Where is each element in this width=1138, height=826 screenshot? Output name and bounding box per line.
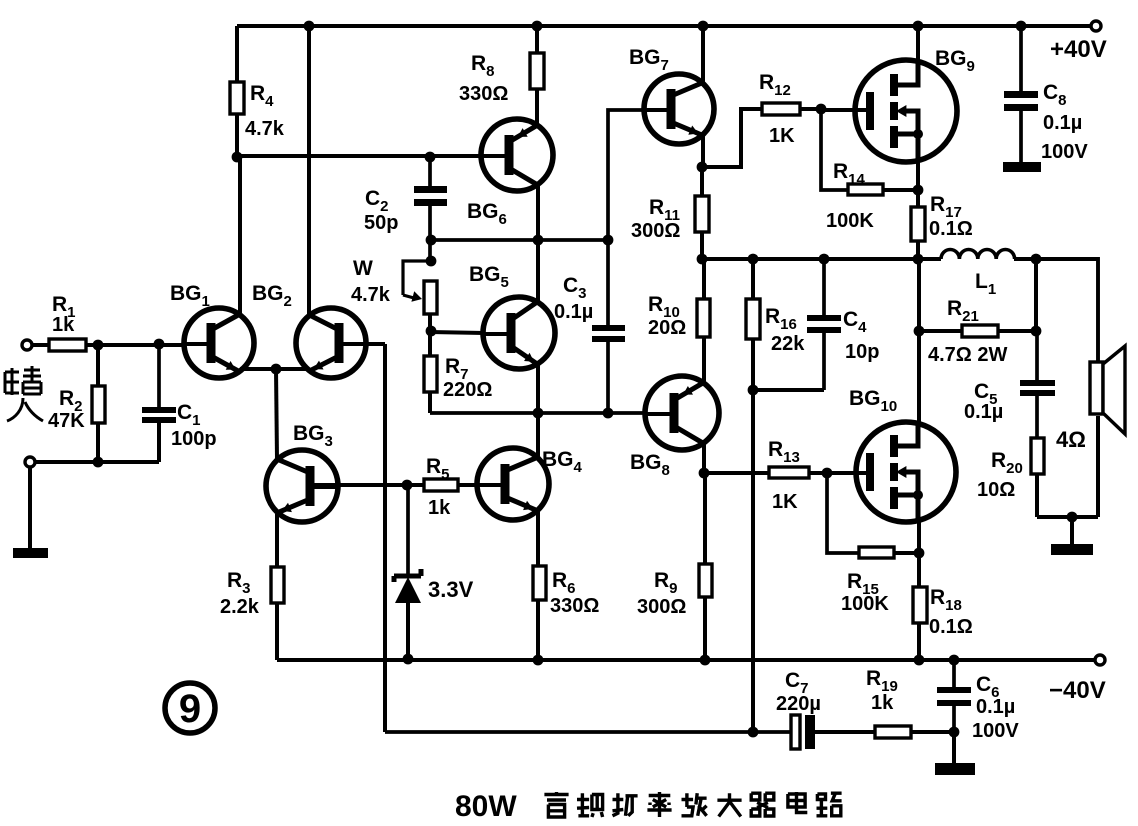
node R17 bottom <box>913 254 924 265</box>
node R21 right / C5 top <box>1031 326 1042 337</box>
wire feedback/ground return line <box>385 730 791 734</box>
svg-text:1k: 1k <box>52 314 75 336</box>
resistor R12 <box>762 103 800 115</box>
figure number 9 (circled) <box>165 683 215 733</box>
wire BG4 collector to node C <box>536 413 540 457</box>
wire BG2 base to feedback line <box>344 342 385 346</box>
wire node down to ground return line <box>751 390 755 732</box>
resistor R3 <box>271 567 284 603</box>
wire R19 to C6 node <box>911 730 954 734</box>
ground C8 <box>1003 162 1041 172</box>
wire BG10 source down <box>917 521 921 553</box>
transistor BG3 (ref) <box>266 450 339 522</box>
speaker 4 ohm <box>1090 362 1103 414</box>
svg-text:100K: 100K <box>826 210 874 232</box>
node C: BG5 collector / BG4 collector <box>533 408 544 419</box>
resistor R6 <box>533 566 546 600</box>
svg-text:300Ω: 300Ω <box>637 596 686 618</box>
svg-text:0.1µ: 0.1µ <box>554 301 593 323</box>
svg-text:1K: 1K <box>772 491 798 513</box>
node BG2 collector / +40V rail junction <box>304 21 315 32</box>
resistor R11 <box>695 196 709 232</box>
resistor R4 <box>230 82 244 114</box>
wire R12 to BG9 gate node <box>800 107 821 111</box>
resistor R5 <box>424 479 458 491</box>
node BG7 emitter / R11 / R12 branch <box>697 162 708 173</box>
wire R13 to BG10 gate node <box>809 471 827 475</box>
wire +40V rail to R8 <box>535 26 539 53</box>
wire BG8 emitter down <box>702 442 706 473</box>
svg-text:0.1µ: 0.1µ <box>976 696 1015 718</box>
wire R7 to y413 line <box>428 392 432 413</box>
zener diode 3.3V <box>406 485 410 576</box>
wire to ground <box>1070 517 1074 544</box>
capacitor C7 (electrolytic 220u) <box>791 715 800 749</box>
wire input return to ground <box>28 467 32 548</box>
svg-text:10Ω: 10Ω <box>977 479 1015 501</box>
wire zobel to speaker return <box>1037 515 1098 519</box>
wire node to R11 <box>700 167 704 196</box>
node R8 / +40V rail junction <box>532 21 543 32</box>
wire BG9 source down <box>916 162 920 190</box>
wire +40V top supply rail <box>237 24 1091 28</box>
wire BG2 collector to +40V rail <box>307 26 311 315</box>
wire R15 to BG10 source node <box>894 551 919 555</box>
ground speaker return <box>1051 544 1093 555</box>
wire speaker to return <box>1096 416 1100 517</box>
wire output rail to R21 node <box>917 259 921 331</box>
node BG9 gate / R14 <box>816 104 827 115</box>
svg-text:+40V: +40V <box>1050 36 1107 63</box>
wire C3 node to BG7 base <box>608 110 644 240</box>
wire output rail to R10 <box>702 259 706 299</box>
terminal signal input (return) <box>25 457 35 467</box>
wire BG7 collector to +40V rail <box>701 26 705 84</box>
wire R3 to -40V rail <box>275 603 279 660</box>
transistor BG4 (ref) <box>476 448 549 520</box>
transistor BG6 (ref) <box>480 119 553 191</box>
wire R8 to BG6 emitter <box>535 89 539 127</box>
node R19 / C6 / ground <box>949 727 960 738</box>
terminal signal input (hot) <box>22 340 32 350</box>
resistor R21 <box>962 325 998 337</box>
wire C1 to input return <box>157 423 161 462</box>
wire +40V rail to BG9 drain <box>916 26 920 60</box>
svg-text:80W: 80W <box>455 790 517 823</box>
node D: W / R7 / BG5 base <box>426 326 437 337</box>
wire node to R13 <box>704 471 769 475</box>
wire node to R17 <box>916 190 920 207</box>
resistor R1 <box>49 339 86 351</box>
node W wiper tie <box>426 256 437 267</box>
node C2 top junction <box>425 152 436 163</box>
wire R10 to BG8 collector <box>702 337 706 384</box>
node C8 / +40V rail junction <box>1016 21 1027 32</box>
node BG10 gate / R15 <box>822 468 833 479</box>
transistor BG1 (ref) <box>183 308 254 378</box>
node vertical line / return line <box>748 727 759 738</box>
wire R20 down <box>1035 474 1039 517</box>
wire C6 node to ground <box>952 732 956 763</box>
svg-text:0.1µ: 0.1µ <box>964 401 1003 423</box>
transistor BG5 (ref) <box>482 297 555 369</box>
capacitor C2 <box>428 157 432 186</box>
capacitor C1 <box>157 344 161 407</box>
wire +40V rail to R4 <box>235 26 239 82</box>
node R6 / -40V rail <box>533 655 544 666</box>
node B: BG3 base / R5 / zener <box>402 480 413 491</box>
wire BG3 base to node B <box>314 483 407 487</box>
wire R21 to C5 node <box>998 329 1036 333</box>
svg-text:330Ω: 330Ω <box>459 83 508 105</box>
node BG7 collector / +40V rail junction <box>698 21 709 32</box>
svg-text:1k: 1k <box>871 692 894 714</box>
node C4 top <box>819 254 830 265</box>
inductor L1 <box>941 249 1015 259</box>
resistor R17 <box>911 207 925 241</box>
wire C7 to R19 <box>815 730 875 734</box>
wire input to R1 <box>32 343 49 347</box>
ground C6 <box>935 763 975 775</box>
svg-text:300Ω: 300Ω <box>631 220 680 242</box>
wire R11 to output rail <box>700 232 704 259</box>
wire C4 bottom to R16 bottom <box>753 388 824 392</box>
node C2 bottom junction <box>426 235 437 246</box>
wire BG3 emitter to R3 <box>275 514 279 567</box>
capacitor C3 <box>606 240 610 325</box>
svg-text:20Ω: 20Ω <box>648 317 686 339</box>
svg-text:220µ: 220µ <box>776 693 821 715</box>
node R16 / C4 bottom <box>748 385 759 396</box>
svg-text:4.7k: 4.7k <box>351 284 391 306</box>
transistor BG2 (ref) <box>296 308 367 378</box>
resistor R9 <box>699 564 712 597</box>
svg-text:1k: 1k <box>428 497 451 519</box>
wire BG4 emitter to R6 <box>536 511 540 566</box>
ground input <box>13 548 48 558</box>
svg-text:W: W <box>353 257 373 280</box>
wire gate node to BG10 gate <box>827 471 866 475</box>
wire BG5 emitter up <box>536 240 540 301</box>
wire BG7 emitter down <box>701 133 705 167</box>
svg-text:100V: 100V <box>972 720 1019 742</box>
node R9 / -40V rail <box>700 655 711 666</box>
wire R6 to -40V rail <box>536 600 540 660</box>
wire R9 to -40V rail <box>703 597 707 660</box>
wire R18 to -40V rail <box>917 623 921 660</box>
resistor R16 <box>746 299 760 339</box>
wire R17 to output rail <box>916 241 920 259</box>
svg-text:0.1Ω: 0.1Ω <box>929 616 973 638</box>
node BG9 drain / +40V rail junction <box>913 21 924 32</box>
transistor BG8 (ref) <box>644 376 719 450</box>
svg-text:100p: 100p <box>171 428 217 450</box>
resistor R13 <box>769 467 809 478</box>
wire output rail <box>702 257 941 261</box>
wire W to node D <box>428 314 432 331</box>
svg-text:100K: 100K <box>841 593 889 615</box>
node BG10 source / R15 / R18 <box>914 548 925 559</box>
wire node to R21 <box>919 329 962 333</box>
transistor BG7 (ref) <box>643 74 714 144</box>
node C1 top junction <box>154 339 165 350</box>
node zener / -40V rail <box>403 654 414 665</box>
terminal +40V supply <box>1091 21 1101 31</box>
wire R16 down <box>751 339 755 390</box>
label input (Chinese 输入) <box>5 366 43 421</box>
svg-text:47K: 47K <box>48 410 85 432</box>
node R16 top <box>748 254 759 265</box>
wire node D to R7 <box>428 331 432 356</box>
terminal -40V supply <box>1095 655 1105 665</box>
wire feedback line vertical <box>383 344 387 732</box>
svg-text:3.3V: 3.3V <box>428 577 474 602</box>
wire R4 to node A <box>235 114 239 157</box>
node BG8 emitter / R13 / R9 <box>699 468 710 479</box>
node R18 / -40V rail <box>914 655 925 666</box>
node BG6 collector / BG5 emitter <box>533 235 544 246</box>
resistor R8 <box>530 53 544 89</box>
caption Chinese characters <box>544 792 568 817</box>
node speaker return ground tap <box>1067 512 1078 523</box>
node R21 right / speaker branch <box>1031 254 1042 265</box>
node C3 bottom junction <box>603 408 614 419</box>
wire -40V bottom rail <box>277 658 1095 662</box>
svg-text:0.1Ω: 0.1Ω <box>929 218 973 240</box>
wire node to R2 <box>96 345 100 386</box>
node C3 top / BG7 base <box>603 235 614 246</box>
resistor R14 <box>848 184 883 195</box>
node R21 left / BG10 drain <box>914 326 925 337</box>
wire R1 to BG1 base <box>86 343 184 347</box>
wire R2 to input return <box>96 423 100 462</box>
svg-text:22k: 22k <box>771 333 805 355</box>
svg-text:330Ω: 330Ω <box>550 595 599 617</box>
wire node B to R5 <box>407 483 424 487</box>
node BG9 source / R14 / R17 <box>913 185 924 196</box>
resistor R20 <box>1031 438 1044 474</box>
svg-text:10p: 10p <box>845 341 879 363</box>
resistor R19 <box>875 726 911 738</box>
wire R14 to BG9 source node <box>883 188 918 192</box>
capacitor C8 <box>1019 26 1023 91</box>
svg-text:1K: 1K <box>769 125 795 147</box>
wire node to R9 <box>703 473 707 564</box>
svg-text:4Ω: 4Ω <box>1056 427 1086 452</box>
node R1 / R2 junction <box>93 340 104 351</box>
svg-text:4.7Ω 2W: 4.7Ω 2W <box>928 344 1008 366</box>
wire output rail to R16 <box>751 259 755 299</box>
node A: R4 / BG1 collector / BG6 base <box>232 152 243 163</box>
svg-text:9: 9 <box>179 687 201 731</box>
svg-text:220Ω: 220Ω <box>443 379 492 401</box>
node R11 / R10 / output rail <box>697 254 708 265</box>
wire BG6 collector down <box>536 185 540 240</box>
wire emitters to BG3 collector <box>276 369 277 459</box>
capacitor C4 <box>822 259 826 315</box>
wire BG1 collector to node A <box>238 157 242 315</box>
wire R5 to BG4 base <box>458 483 477 487</box>
wire gate node to R14 <box>821 109 848 190</box>
svg-text:−40V: −40V <box>1049 677 1106 704</box>
svg-text:4.7k: 4.7k <box>245 118 285 140</box>
wire input return <box>35 460 159 464</box>
node emitters junction <box>271 364 282 375</box>
wire output rail to C5 node <box>1034 259 1038 331</box>
wire mid line (C2 bottom / BG6 collector / BG5 emitter / C3 / BG7 base) <box>430 238 608 242</box>
wire output rail to speaker branch <box>1014 259 1098 362</box>
wire node A to BG6 base <box>237 154 482 158</box>
wire zener to -40V rail <box>406 602 410 660</box>
resistor R18 <box>913 587 927 623</box>
resistor R2 <box>92 386 105 423</box>
svg-text:2.2k: 2.2k <box>220 596 260 618</box>
wire bus line (R7 / BG5 collector / C3 / BG8 base) <box>430 411 645 415</box>
node C6 / -40V rail <box>949 655 960 666</box>
capacitor C5 <box>1035 331 1039 380</box>
capacitor C6 <box>952 660 956 687</box>
wire node to BG10 drain <box>917 331 921 423</box>
resistor R10 <box>697 299 710 337</box>
MOSFET BG10 (ref) <box>856 422 956 522</box>
wire node to R18 <box>917 553 921 587</box>
MOSFET BG9 (ref) <box>855 60 957 162</box>
wire node D to BG5 base <box>430 332 484 333</box>
node R2 / return junction <box>93 457 104 468</box>
resistor R15 <box>859 547 894 558</box>
wire BG1/BG2 emitters <box>240 367 309 371</box>
resistor R7 <box>424 356 437 392</box>
wire BG7 emitter to R12 <box>702 109 762 167</box>
wire gate node to R15 <box>827 473 859 553</box>
wire gate node to BG9 gate <box>821 108 867 112</box>
svg-text:0.1µ: 0.1µ <box>1043 112 1082 134</box>
wire BG5 collector down <box>536 363 540 413</box>
svg-text:50p: 50p <box>364 212 398 234</box>
svg-text:100V: 100V <box>1041 141 1088 163</box>
